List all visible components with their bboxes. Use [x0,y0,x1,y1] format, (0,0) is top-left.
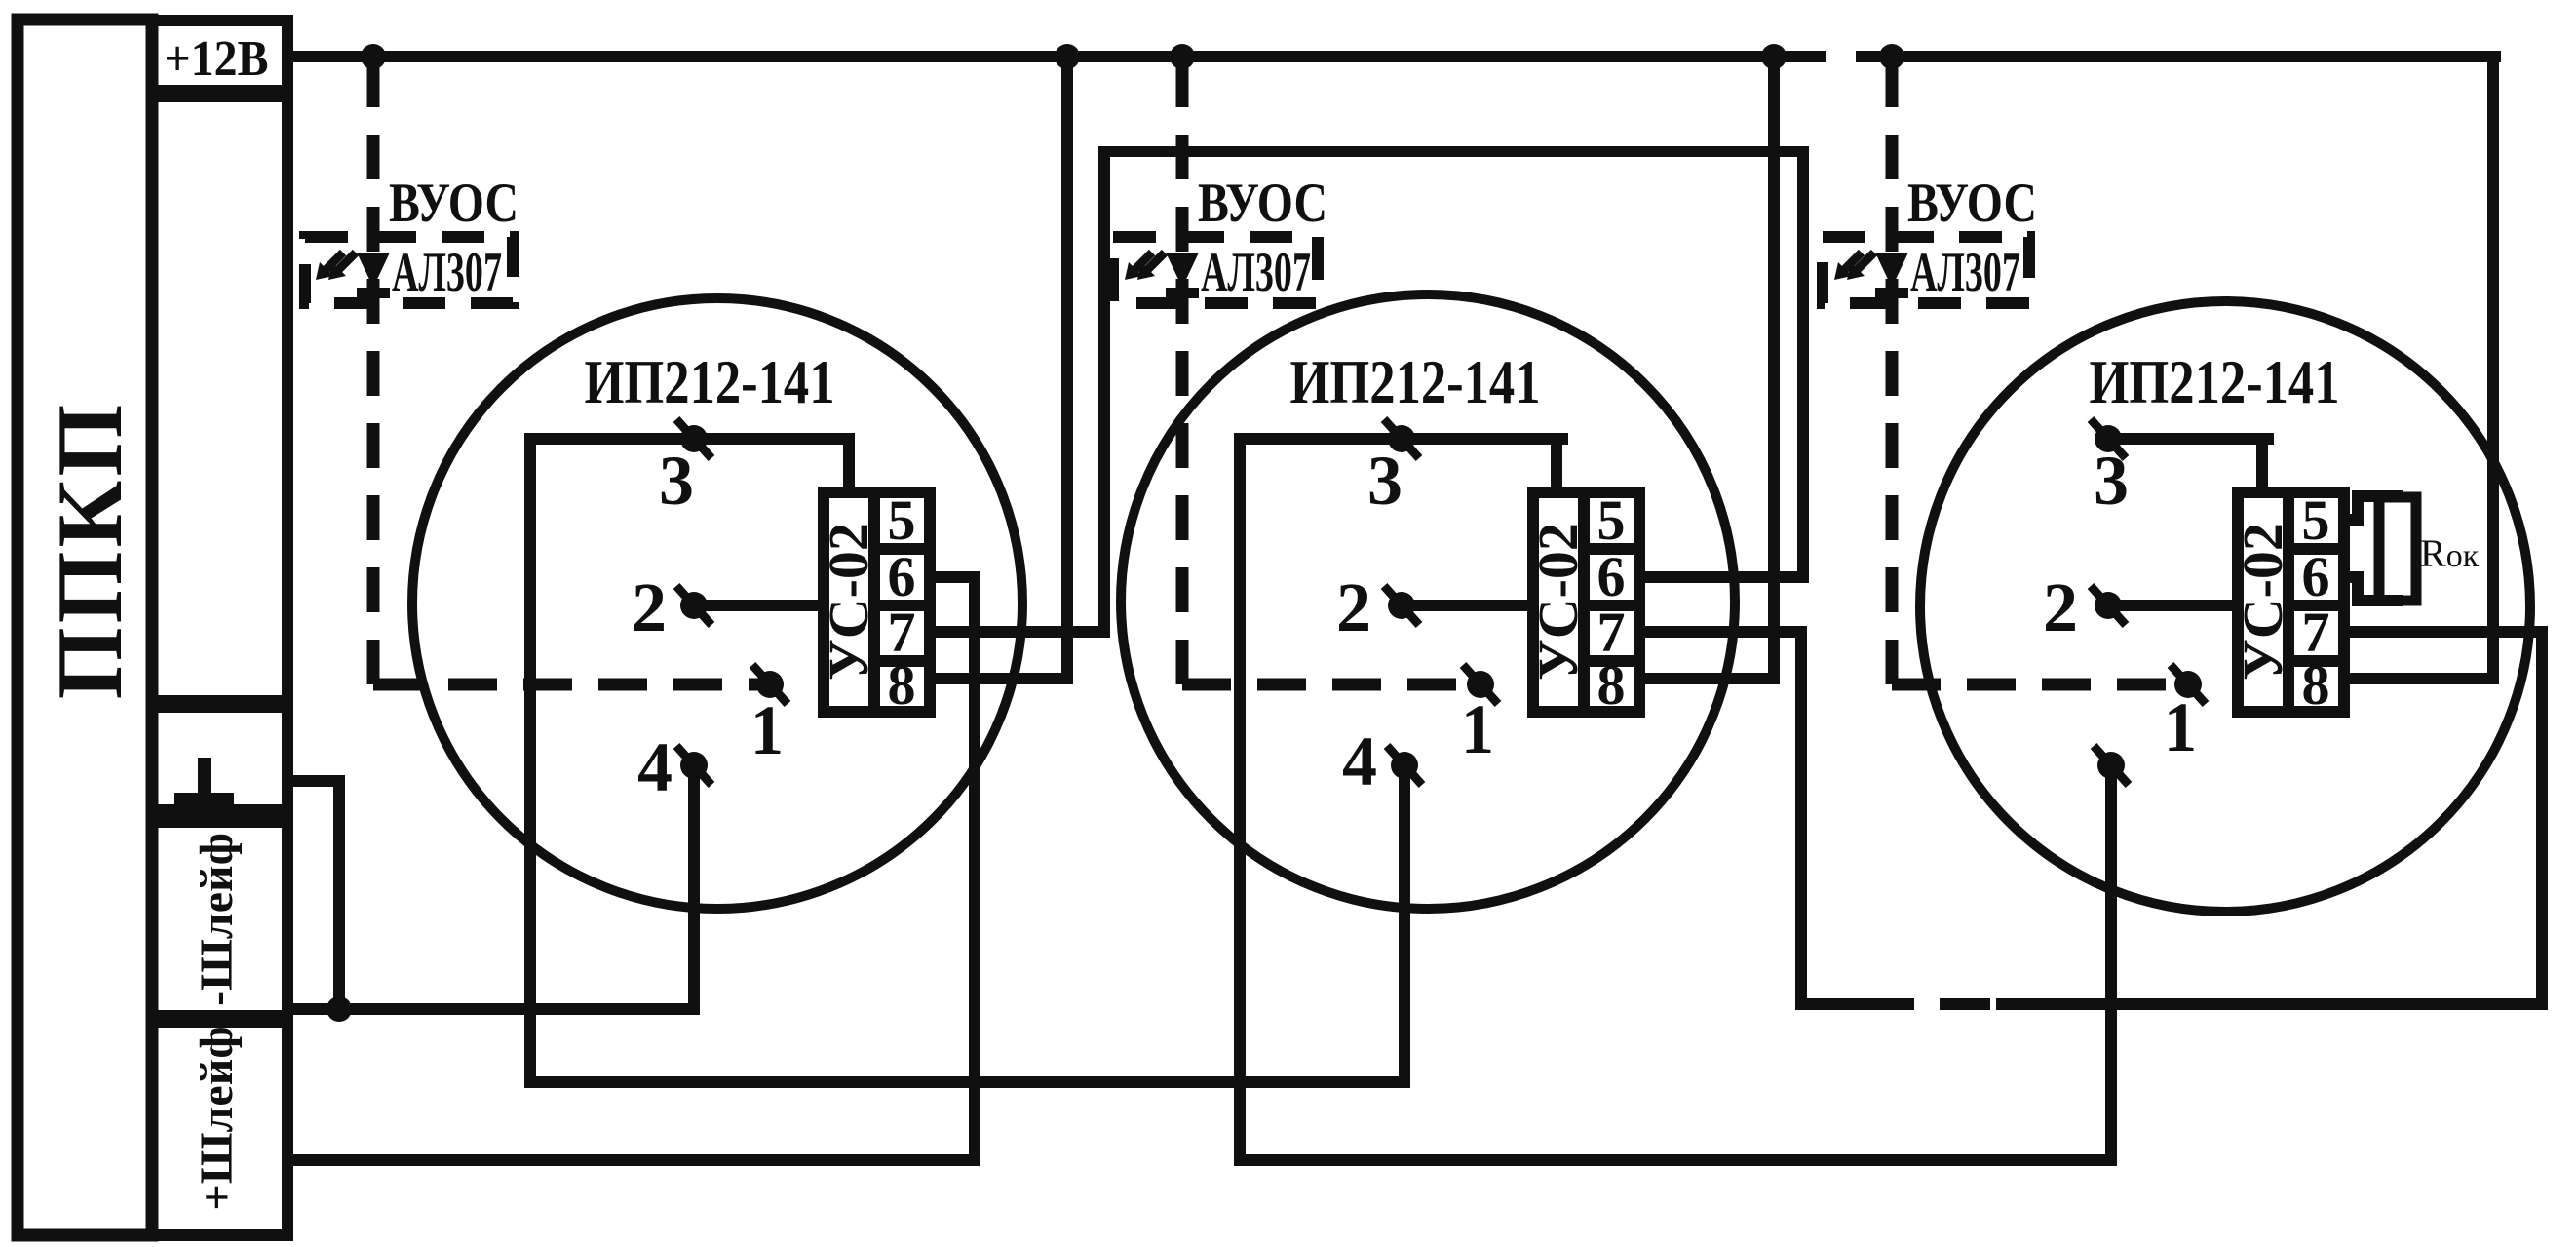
svg-text:+Шлейф: +Шлейф [191,1026,243,1210]
terminal box +Шлейф [152,1016,288,1235]
svg-text:АЛ307: АЛ307 [1910,242,2020,303]
node dot -Шлейф junction [327,996,352,1022]
wire ground elbow horizontal [288,775,345,787]
det3 pin8 wire [2344,673,2499,684]
det1 pin3 top wire [524,433,855,445]
svg-text:2: 2 [632,568,667,646]
LED АЛ307 2 arrows [1145,253,1165,272]
det2 pin node 3 [1384,419,1419,458]
ВУОС 2 dashed vertical [1176,62,1189,684]
node dot rail at det1 pin8 [1055,44,1080,69]
node dot rail at ВУОС2 [1170,44,1195,69]
svg-text:ИП212-141: ИП212-141 [585,348,835,416]
terminal box +12В [152,20,288,97]
det1 cell 8 [874,661,930,712]
LED АЛ307 3 arrows [1855,253,1874,272]
det3 pin node 1 [2171,665,2206,704]
LED АЛ307 1 triangle [357,253,390,288]
det1 pin6 vertical [969,571,980,1166]
terminal column empty box [152,91,288,707]
det3 pin node 3 [2091,419,2126,458]
svg-text:3: 3 [1367,442,1403,520]
det3 pin4 vertical [2105,765,2117,1166]
det3 pin3 wire [2108,433,2274,445]
detector 2 circle [1121,294,1735,909]
det2 pin node 1 [1463,665,1498,704]
det3 pin node 2 [2091,586,2126,625]
ВУОС 1 dashed vertical [367,62,380,684]
wire +Шлейф horizontal [288,1154,980,1166]
node dot rail at det2 pin8 [1761,44,1787,69]
det2 pin2 wire [1402,600,1539,611]
ВУОС 3 dashed vertical [1886,62,1899,684]
terminal box ground [152,701,288,822]
wire +12V top rail right segment [1856,51,2501,62]
det3 top wire right drop [2256,433,2268,498]
svg-text:АЛ307: АЛ307 [1201,242,1311,303]
dashed wire to det2 pin1 [1182,679,1475,691]
det3 УС-02 connector body [2238,492,2288,712]
svg-text:ИП212-141: ИП212-141 [1290,348,1541,416]
det1 pin7 wire [930,626,1110,638]
det3 pin node 4 [2094,746,2129,785]
svg-text:6: 6 [888,545,916,608]
panel ППКП outer box [18,19,152,1235]
svg-text:ИП212-141: ИП212-141 [2090,348,2340,416]
det1 cell 6 [874,549,930,605]
det3 pin2 wire [2108,600,2244,611]
det2 pin node 2 [1384,586,1419,625]
det1 left loop vertical [524,433,536,1088]
det2 pin4 vertical [1399,765,1410,1088]
svg-text:2: 2 [1336,568,1371,646]
det2 pin6 wire [1640,571,1809,583]
svg-text:ВУОС: ВУОС [389,173,519,234]
svg-text:2: 2 [2043,568,2078,646]
dashed wire to det3 pin1 [1892,679,2182,691]
LED АЛ307 3 triangle [1875,253,1908,288]
det1 pin node 4 [676,746,711,785]
wire second rail det1.7 to det2.6 [1098,146,1809,157]
det3 pin8 vertical to rail [2487,51,2499,684]
det2 top wire right drop [1551,433,1562,498]
svg-text:8: 8 [888,653,916,717]
svg-text:+12В: +12В [165,31,269,87]
resistor Rок stub pin6 [2338,571,2364,583]
svg-text:8: 8 [2302,653,2330,717]
det2 pin7 wire [1640,626,1807,638]
det2 pin8 vertical to rail [1768,51,1780,684]
svg-text:ВУОС: ВУОС [1198,173,1327,234]
det2 left loop vertical [1234,433,1246,1166]
det3 cell 5 [2288,492,2344,549]
ВУОС 1 dashed box [305,237,513,303]
wire second rail right drop [1797,146,1809,583]
det1 pin4 vertical [688,765,700,1015]
detector 1 circle [412,298,1022,909]
svg-text:1: 1 [2164,688,2197,766]
det2 cell 8 [1584,661,1639,712]
wire ground elbow vertical [333,775,345,1015]
det1 pin2 wire [694,600,829,611]
det1 pin6 wire [930,571,980,583]
LED АЛ307 1 cathode bar [357,288,390,298]
detector 3 circle [1920,301,2530,912]
wire det2 pin7 to det3 pin7 segment a [1795,998,1914,1010]
det2 cell 7 [1584,605,1639,661]
svg-text:ВУОС: ВУОС [1907,173,2037,234]
dashed wire to det1 pin1 [373,679,764,691]
det3 pin7 wire [2344,626,2548,638]
resistor Rок lower bracket [2352,571,2364,606]
det1 pin8 vertical to rail [1061,51,1073,684]
det2 pin8 wire [1640,673,1780,684]
det2 pin3 top wire [1234,433,1568,445]
svg-text:ППКП: ППКП [38,401,141,700]
det1 pin node 1 [752,665,788,704]
det1 cell 7 [874,605,930,661]
wire +Шлейф continuation to det3 pin4 [1236,1154,2117,1166]
det1 pin node 2 [676,586,711,625]
svg-text:3: 3 [659,442,694,520]
svg-text:-Шлейф: -Шлейф [191,833,243,1006]
svg-text:4: 4 [637,728,673,806]
ВУОС 2 dashed box [1113,237,1318,303]
det2 УС-02 connector body [1533,492,1584,712]
det1 top wire right drop [843,433,855,498]
LED АЛ307 1 arrows [336,253,356,272]
det1 УС-02 connector body [824,492,874,712]
svg-text:6: 6 [2302,545,2330,608]
svg-text:1: 1 [1461,690,1494,768]
det3 cell 8 [2288,661,2344,712]
resistor Rок body [2379,497,2416,601]
LED АЛ307 2 triangle [1166,253,1199,288]
det1 cell 5 [874,492,930,549]
wire +12V top rail left segment [288,51,1826,62]
LED АЛ307 3 cathode bar [1875,288,1908,298]
node dot rail at ВУОС3 [1879,44,1904,69]
det3 cell 7 [2288,605,2344,661]
svg-text:6: 6 [1597,545,1626,608]
wire det2-det3 dash segment [1940,998,1990,1010]
ground symbol [198,758,211,799]
svg-text:5: 5 [888,488,916,552]
det1 pin8 wire [930,673,1073,684]
ВУОС 3 dashed box [1823,237,2029,303]
det2 pin7 vertical down [1795,626,1807,1010]
det1 pin node 3 [676,419,711,458]
det3 pin7 vertical down [2536,626,2548,1010]
det2 cell 5 [1584,492,1639,549]
wire second rail left drop [1098,146,1110,638]
wire loop det1 bottom to det2 pin4 [524,1076,1410,1088]
node dot rail at ВУОС1 [361,44,386,69]
wire det2-det3 segment b [1996,998,2548,1010]
svg-text:1: 1 [750,691,784,769]
svg-text:8: 8 [1597,653,1626,717]
resistor Rок upper bracket [2352,490,2364,526]
wire -Шлейф horizontal [288,1003,700,1015]
det3 cell 6 [2288,549,2344,605]
det2 pin node 4 [1387,746,1422,785]
svg-text:4: 4 [1342,722,1377,800]
resistor Rок stub pin5 [2338,514,2364,526]
svg-text:АЛ307: АЛ307 [392,242,502,303]
svg-text:3: 3 [2094,442,2129,520]
LED АЛ307 2 cathode bar [1166,288,1199,298]
svg-text:5: 5 [1597,488,1626,552]
svg-text:5: 5 [2302,488,2330,552]
svg-text:Rок: Rок [2420,531,2480,575]
det2 cell 6 [1584,549,1639,605]
terminal box -Шлейф [152,810,288,1022]
